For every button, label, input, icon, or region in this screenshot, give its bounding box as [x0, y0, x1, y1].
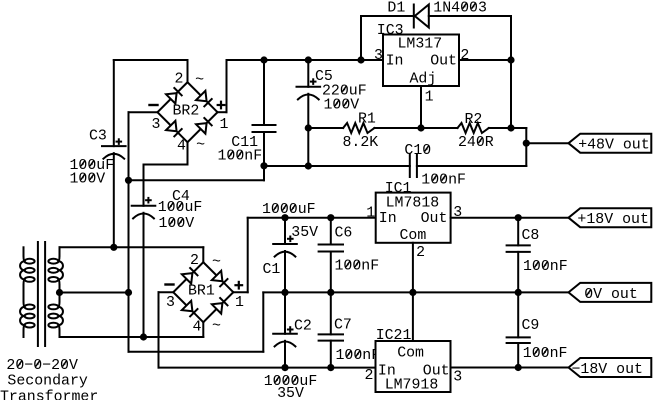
capacitor C3	[102, 146, 126, 159]
regulator IC1 box	[376, 193, 451, 243]
C3 plus	[116, 138, 123, 145]
transformer T1 secondary winding	[48, 247, 63, 337]
svg-text:Adj: Adj	[410, 71, 437, 87]
svg-text:LM317: LM317	[398, 36, 443, 52]
svg-text:C3: C3	[89, 128, 107, 144]
svg-text:0V out: 0V out	[584, 287, 638, 303]
node BR2 minus junction	[125, 177, 132, 184]
svg-text:R2: R2	[465, 112, 483, 128]
svg-text:2: 2	[175, 72, 184, 88]
wire D1 left leg	[361, 16, 414, 60]
C5 plus	[310, 78, 317, 85]
wire -18 input line	[159, 367, 376, 369]
BR2 tilde bottom	[196, 137, 205, 153]
text -18V out	[572, 362, 644, 378]
capacitor C11	[253, 60, 276, 166]
IC1 Out text	[421, 211, 448, 227]
wire C5 bottom	[307, 128, 309, 166]
wire D1 right leg	[429, 16, 511, 60]
svg-text:100nF: 100nF	[523, 259, 568, 275]
BR2 label	[173, 103, 200, 119]
svg-text:1: 1	[366, 205, 375, 221]
node com junction	[409, 289, 416, 296]
C8 value	[523, 259, 568, 275]
IC21 label	[376, 328, 412, 344]
capacitor C1	[273, 218, 297, 293]
svg-text:4: 4	[177, 139, 186, 155]
BR1 tilde top	[212, 255, 221, 271]
svg-text:+48V out: +48V out	[578, 138, 650, 154]
svg-text:2: 2	[460, 48, 469, 64]
node C5 top	[305, 56, 312, 63]
wire BR2 pin1 to rail	[218, 60, 227, 112]
IC21 name	[385, 378, 439, 394]
wire +48 corner	[511, 128, 526, 166]
node D1 cathode tap	[357, 56, 364, 63]
C5 label	[315, 69, 333, 85]
svg-text:3: 3	[166, 295, 175, 311]
capacitor C2	[273, 292, 297, 367]
wire BR2 pin2 up-left	[114, 60, 188, 82]
IC3 In text	[386, 54, 404, 70]
BR2 pin 4 label	[177, 139, 186, 155]
svg-text:100uF: 100uF	[158, 200, 203, 216]
text 0V out	[584, 287, 638, 303]
BR1 minus label	[166, 283, 174, 285]
svg-text:1N4003: 1N4003	[433, 0, 487, 16]
svg-text:3: 3	[152, 117, 161, 133]
op-amp U IC3 box	[383, 35, 459, 87]
wire +18 input rail	[248, 217, 376, 219]
IC21 In text	[378, 364, 396, 380]
svg-text:35V: 35V	[291, 225, 318, 241]
IC1 Com text	[400, 228, 427, 244]
svg-text:IC21: IC21	[376, 328, 412, 344]
wire C4 to secondary bottom	[143, 213, 145, 337]
IC1 In text	[379, 211, 397, 227]
R2 label	[465, 112, 483, 128]
svg-text:C1: C1	[263, 262, 281, 278]
C10 value	[421, 172, 466, 188]
IC3 pin 3 label	[374, 48, 383, 64]
BR1 plus label	[234, 281, 243, 290]
svg-text:100nF: 100nF	[421, 172, 466, 188]
wire C10 left	[264, 165, 410, 167]
IC1 pin 1 label	[366, 205, 375, 221]
capacitor C10	[410, 155, 417, 178]
node C4 tap on secondary bottom	[140, 333, 147, 340]
R1 label	[358, 111, 376, 127]
C2 label	[294, 318, 312, 334]
IC3 Adj text	[410, 71, 437, 87]
resistor R1	[343, 123, 374, 133]
wire R2 right	[489, 127, 511, 129]
C6 value	[335, 259, 380, 275]
svg-text:100V: 100V	[70, 171, 106, 187]
R1 value	[343, 135, 379, 151]
C1 value	[262, 202, 318, 241]
svg-text:Transformer: Transformer	[0, 389, 98, 400]
wire IC3 adj	[420, 86, 422, 128]
C2 plus	[287, 326, 294, 333]
IC1 name	[386, 195, 440, 211]
node C9 bottom	[515, 364, 522, 371]
transformer label	[0, 358, 98, 405]
svg-text:1: 1	[220, 117, 229, 133]
node C11 top	[260, 56, 267, 63]
BR2 pin 2 label	[175, 72, 184, 88]
node C7 bottom	[327, 364, 334, 371]
svg-text:100V: 100V	[324, 97, 360, 113]
svg-text:Com: Com	[400, 228, 427, 244]
svg-text:2: 2	[416, 245, 425, 261]
wire R1 to adj node	[374, 127, 421, 129]
svg-text:Out: Out	[430, 54, 457, 70]
node C5 bottom on C10 line	[305, 162, 312, 169]
BR2 minus label	[150, 104, 158, 106]
capacitor C9	[507, 292, 530, 367]
BR2 tilde top	[195, 73, 204, 89]
svg-text:LM7918: LM7918	[385, 378, 439, 394]
IC1 label	[385, 181, 412, 197]
svg-text:3: 3	[453, 370, 462, 386]
IC1 pin 3 label	[453, 205, 462, 221]
svg-text:1000uF: 1000uF	[262, 202, 316, 218]
C11 label	[231, 135, 258, 151]
wire BR2 minus to C11 bottom	[129, 166, 265, 181]
svg-text:100V: 100V	[159, 216, 195, 232]
BR1 pin 1 label	[235, 295, 244, 311]
transformer T1 core	[38, 242, 45, 346]
wire 0V rail	[263, 291, 568, 293]
wire adj line left	[308, 127, 343, 129]
wire C10 right	[417, 165, 526, 167]
wire secondary bottom to BR1 pin4	[60, 322, 204, 337]
BR1 pin 2 label	[190, 253, 199, 269]
svg-text:1: 1	[235, 295, 244, 311]
flag +48V out	[569, 134, 652, 153]
capacitor C6	[319, 218, 343, 293]
wire IC3 out	[459, 59, 511, 61]
C8 label	[522, 228, 540, 244]
wire BR1 pin3 to -18 line	[159, 292, 174, 367]
node C2 bottom	[281, 364, 288, 371]
C7 value	[336, 348, 381, 364]
node C8 C9 junction	[515, 289, 522, 296]
svg-text:C2: C2	[294, 318, 312, 334]
svg-text:Secondary: Secondary	[7, 374, 87, 390]
svg-text:100nF: 100nF	[218, 149, 263, 165]
wire secondary top to BR1 pin2	[60, 247, 204, 262]
svg-text:3: 3	[374, 48, 383, 64]
bridge rectifier BR2	[158, 82, 218, 142]
wire IC21 com	[412, 292, 414, 341]
wire center tap down to 0V	[129, 292, 264, 351]
node C3 tap on secondary top	[110, 244, 117, 251]
wire IC21 out	[451, 367, 569, 369]
C4 value	[158, 200, 203, 232]
transformer T1 primary winding	[20, 247, 35, 337]
IC3 label	[377, 23, 404, 39]
R2 value	[458, 135, 494, 151]
D1 value	[433, 0, 487, 16]
svg-text:C8: C8	[522, 228, 540, 244]
BR1 pin 4 label	[193, 319, 202, 335]
svg-text:C10: C10	[404, 143, 431, 159]
svg-text:C6: C6	[335, 225, 353, 241]
svg-text:Out: Out	[421, 211, 448, 227]
C6 label	[335, 225, 353, 241]
svg-text:~: ~	[196, 137, 205, 153]
svg-text:240R: 240R	[458, 135, 494, 151]
BR1 tilde bottom	[212, 318, 221, 334]
svg-text:C9: C9	[522, 318, 540, 334]
capacitor C8	[507, 218, 530, 293]
svg-text:~: ~	[212, 318, 221, 334]
wire adj to R2	[421, 127, 458, 129]
C1 plus	[287, 236, 294, 243]
C10 label	[404, 143, 431, 159]
diode D1	[414, 5, 429, 28]
capacitor C4	[132, 206, 156, 219]
wire to +48 flag	[526, 142, 568, 144]
svg-text:~: ~	[212, 255, 221, 271]
IC3 Out text	[430, 54, 457, 70]
C4 label	[172, 189, 190, 205]
BR1 pin 3 label	[166, 295, 175, 311]
IC3 name	[398, 36, 443, 52]
svg-text:C7: C7	[334, 317, 352, 333]
svg-text:IC1: IC1	[385, 181, 412, 197]
text +18V out	[577, 212, 649, 228]
svg-text:35V: 35V	[277, 386, 304, 400]
node center tap junction	[125, 289, 132, 296]
svg-text:2: 2	[190, 253, 199, 269]
node adj junction	[417, 124, 424, 131]
svg-text:8.2K: 8.2K	[343, 135, 379, 151]
wire center tap	[60, 292, 129, 294]
node C6 C7 junction	[327, 289, 334, 296]
IC21 Com text	[397, 346, 424, 362]
node C8 top	[515, 214, 522, 221]
flag +18V out	[569, 208, 652, 227]
IC21 Out text	[423, 364, 450, 380]
wire IC1 out	[451, 217, 569, 219]
BR2 plus label	[217, 101, 226, 110]
svg-text:LM7818: LM7818	[386, 195, 440, 211]
C5 value	[322, 83, 367, 113]
C9 value	[523, 346, 568, 362]
node R2 out junction	[507, 124, 514, 131]
wire C3 to secondary top	[113, 153, 115, 247]
BR2 pin 3 label	[152, 117, 161, 133]
wire C3 branch	[113, 60, 115, 146]
svg-text:R1: R1	[358, 111, 376, 127]
flag -18V out	[569, 358, 652, 377]
svg-text:~: ~	[195, 73, 204, 89]
IC21 pin 3 label	[453, 370, 462, 386]
svg-text:2: 2	[365, 368, 374, 384]
C3 label	[89, 128, 107, 144]
node center tap at winding	[56, 289, 63, 296]
svg-text:1: 1	[425, 89, 434, 105]
wire BR2 pin4 down	[144, 142, 188, 206]
C7 label	[334, 317, 352, 333]
svg-text:4: 4	[193, 319, 202, 335]
node LM317 out	[507, 56, 514, 63]
IC3 pin 1 label	[425, 89, 434, 105]
bridge rectifier BR1	[173, 262, 233, 322]
node C6 top	[327, 214, 334, 221]
svg-text:100nF: 100nF	[336, 348, 381, 364]
svg-text:100nF: 100nF	[335, 259, 380, 275]
wire out node down	[510, 60, 512, 128]
node C1 C2 junction	[281, 289, 288, 296]
svg-text:BR1: BR1	[188, 283, 215, 299]
node C1 top	[281, 214, 288, 221]
node R line left	[305, 124, 312, 131]
svg-text:20−0−20V: 20−0−20V	[6, 358, 78, 374]
node C11 bottom	[260, 162, 267, 169]
svg-text:In: In	[379, 211, 397, 227]
svg-text:100nF: 100nF	[523, 346, 568, 362]
node +48 tap	[523, 140, 530, 147]
wire IC1 com	[412, 243, 414, 293]
capacitor C7	[319, 292, 343, 367]
C9 label	[522, 318, 540, 334]
svg-text:+18V out: +18V out	[577, 212, 649, 228]
C2 value	[264, 374, 318, 402]
svg-text:Com: Com	[397, 346, 424, 362]
IC3 pin 2 label	[460, 48, 469, 64]
C3 value	[70, 158, 115, 188]
BR1 label	[188, 283, 215, 299]
D1 label	[387, 0, 405, 16]
flag 0V out	[569, 283, 652, 302]
C11 value	[218, 149, 263, 165]
svg-text:D1: D1	[387, 0, 405, 16]
BR2 pin 1 label	[220, 117, 229, 133]
IC1 pin 2 label	[416, 245, 425, 261]
IC21 pin 2 label	[365, 368, 374, 384]
svg-text:In: In	[386, 54, 404, 70]
svg-text:−18V out: −18V out	[572, 362, 644, 378]
wire BR2 pin3 left	[129, 112, 158, 292]
text +48V out	[578, 138, 650, 154]
C4 plus	[145, 197, 152, 204]
regulator IC21 box	[376, 341, 451, 392]
svg-text:BR2: BR2	[173, 103, 200, 119]
C1 label	[263, 262, 281, 278]
resistor R2	[458, 123, 489, 133]
wire top rail	[227, 59, 384, 61]
wire BR1 pin1 to +18 rail	[233, 218, 247, 293]
capacitor C5	[297, 60, 321, 128]
